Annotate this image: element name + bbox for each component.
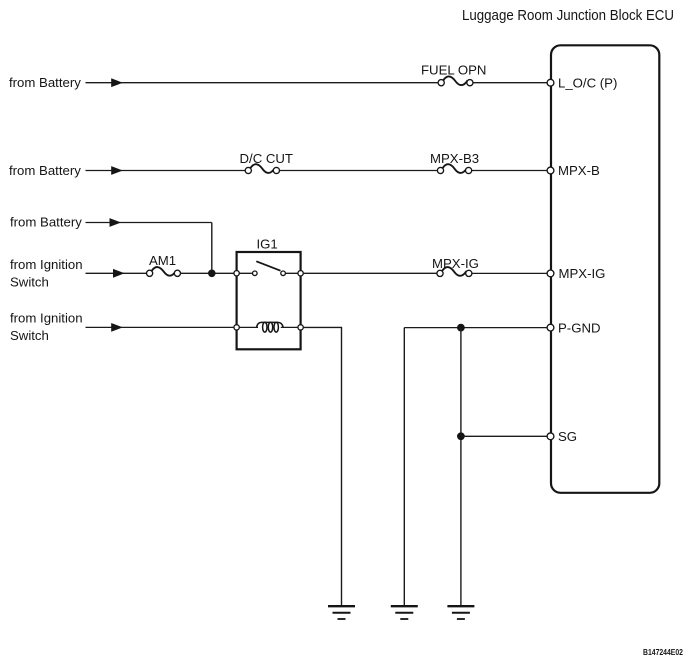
pin MPX-IG: [547, 270, 554, 277]
box pin right bottom: [298, 325, 303, 330]
pin L_O/C (P): [547, 79, 554, 86]
fuse AM1: [147, 267, 181, 276]
wire row3 horizontal: [86, 222, 212, 224]
svg-text:from Ignition: from Ignition: [10, 257, 83, 272]
arrow row5: [111, 323, 123, 332]
arrow row3: [110, 218, 122, 227]
svg-text:D/C CUT: D/C CUT: [240, 151, 293, 166]
box pin right top: [298, 271, 303, 276]
wire row1 left segment: [86, 82, 439, 84]
arrow row2: [111, 166, 123, 175]
junction node P-GND: [457, 324, 465, 332]
wire P-GND horizontal: [404, 327, 547, 329]
pin P-GND: [547, 324, 554, 331]
fuse MPX-B3: [437, 164, 471, 173]
svg-text:MPX-IG: MPX-IG: [432, 256, 479, 271]
svg-text:B147244E02: B147244E02: [643, 648, 683, 657]
box pin left top: [234, 271, 239, 276]
wire row4 segment c to fuse: [304, 272, 437, 274]
svg-text:from Battery: from Battery: [10, 215, 82, 230]
svg-text:AM1: AM1: [149, 253, 176, 268]
junction node SG: [457, 432, 465, 440]
switch blade IG1: [256, 261, 280, 270]
wire coil row inside box right: [281, 326, 301, 328]
arrow row1: [111, 78, 123, 87]
wire row2 segment c: [472, 170, 548, 172]
ground G1: [328, 606, 355, 619]
svg-text:from Ignition: from Ignition: [10, 310, 83, 325]
svg-text:Switch: Switch: [10, 275, 49, 290]
svg-text:SG: SG: [558, 429, 577, 444]
pin SG: [547, 433, 554, 440]
svg-text:Luggage Room Junction Block EC: Luggage Room Junction Block ECU: [462, 8, 674, 24]
wire switch row inside box right: [283, 272, 301, 274]
svg-text:from Battery: from Battery: [9, 163, 81, 178]
svg-text:L_O/C (P): L_O/C (P): [558, 75, 617, 90]
wire row5 to box: [86, 326, 237, 328]
junction node row4: [208, 270, 216, 278]
fuse D/C CUT: [245, 164, 279, 173]
wire row3 vertical drop: [211, 223, 213, 274]
svg-text:from Battery: from Battery: [9, 75, 81, 90]
svg-text:P-GND: P-GND: [558, 320, 601, 335]
svg-text:IG1: IG1: [257, 236, 278, 251]
wire row1 right segment: [473, 82, 547, 84]
wire row4 segment b: [181, 272, 237, 274]
ground G3: [447, 606, 474, 619]
fuse FUEL OPN: [438, 76, 473, 85]
svg-text:MPX-IG: MPX-IG: [559, 266, 606, 281]
wire switch row inside box left: [237, 272, 255, 274]
switch terminal left: [253, 271, 258, 276]
wire row2 segment b: [280, 170, 438, 172]
wire ground drop 2: [403, 328, 405, 606]
fuse MPX-IG: [437, 267, 472, 276]
svg-text:FUEL OPN: FUEL OPN: [421, 62, 486, 77]
coil IG1: [257, 322, 284, 332]
pin MPX-B: [547, 167, 554, 174]
wire ground drop 3: [460, 328, 462, 606]
wire row2 segment a: [86, 170, 246, 172]
wire coil row inside box left: [237, 326, 258, 328]
ECU block U1: [551, 45, 659, 493]
box pin left bottom: [234, 325, 239, 330]
svg-text:MPX-B: MPX-B: [558, 163, 600, 178]
switch terminal right: [281, 271, 286, 276]
ground G2: [391, 606, 418, 619]
wire coil out to corner: [304, 327, 342, 606]
wire SG horizontal: [461, 435, 547, 437]
arrow row4: [113, 269, 125, 278]
svg-text:Switch: Switch: [10, 328, 49, 343]
wire row4 segment a: [86, 272, 147, 274]
svg-text:MPX-B3: MPX-B3: [430, 151, 479, 166]
wire row4 segment d: [472, 272, 547, 274]
relay IG1 box: [237, 252, 301, 349]
